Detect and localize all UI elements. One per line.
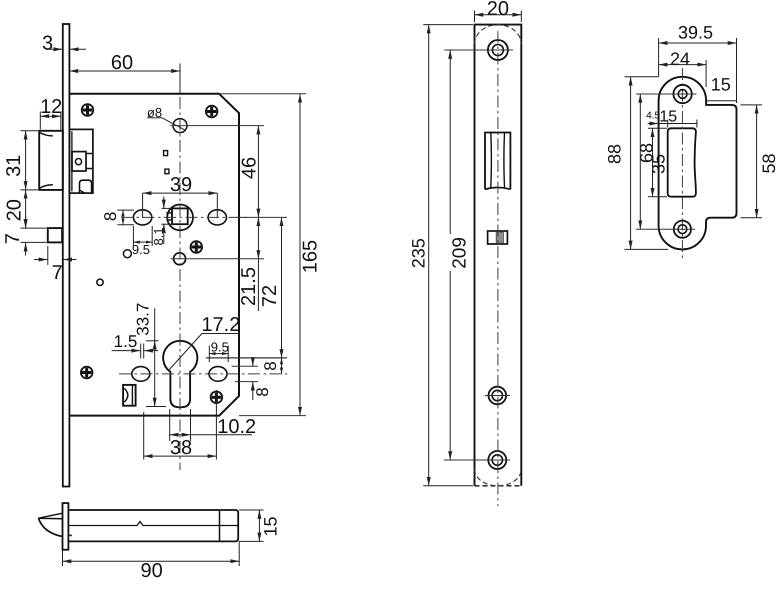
svg-text:24: 24 [670, 49, 690, 69]
case inner strip line [71, 131, 73, 191]
dim 1.5 offset [112, 332, 158, 359]
crosshead screw middle [191, 241, 203, 253]
deadbolt slot [488, 231, 508, 244]
svg-text:7: 7 [52, 262, 63, 284]
small rivet circle b [97, 279, 103, 285]
svg-text:58: 58 [759, 153, 778, 173]
dim 39.5 strike width [659, 23, 737, 104]
dim 8.1 spindle square [151, 197, 171, 246]
dim 33.7 cylinder profile height [134, 303, 166, 407]
spindle square notch [167, 213, 172, 220]
dim 7 deadbolt height [2, 215, 47, 256]
svg-text:235: 235 [409, 238, 429, 268]
dim 31 latch height [3, 131, 38, 190]
dim 8 cylinder-row slot height [253, 358, 272, 401]
latch flange cross-section [63, 503, 69, 550]
dim 209 screw centers [449, 50, 470, 460]
spindle follower circle [167, 205, 193, 231]
vertical centerline main [179, 97, 181, 470]
dim 17.2 cylinder circle [169, 314, 241, 371]
spring bracket [123, 385, 136, 406]
svg-text:15: 15 [261, 516, 281, 536]
svg-text:209: 209 [449, 237, 470, 269]
latch body [68, 510, 238, 541]
screw hole middle [485, 387, 510, 405]
dim 12 [40, 96, 62, 130]
svg-text:20: 20 [4, 199, 26, 221]
dim 35 opening height [648, 128, 668, 196]
svg-text:8: 8 [101, 212, 120, 221]
spindle square 8.1 [172, 208, 188, 224]
lower guide tab [80, 180, 92, 193]
dim 58 lip height [741, 105, 778, 218]
latch mid line with notch [68, 522, 238, 526]
lock body outline with chamfered right corners [69, 94, 239, 416]
dim 15 lip [706, 75, 736, 101]
strike latch opening [668, 128, 696, 196]
tiny square b [165, 169, 169, 174]
hole D8 top [173, 119, 187, 133]
dim 60 backset [69, 52, 180, 94]
dim 9.5 cylinder-row slot width [209, 340, 229, 363]
svg-text:46: 46 [239, 157, 261, 179]
latch end cap line [219, 510, 221, 541]
svg-text:15: 15 [711, 75, 731, 95]
dim 21.5 [238, 217, 260, 311]
extension lines right side [187, 125, 264, 127]
faceplate side bar [63, 24, 70, 487]
crosshead screw top-left [82, 104, 94, 116]
svg-text:9.5: 9.5 [132, 242, 150, 257]
screw hole top [444, 40, 513, 60]
svg-text:15: 15 [659, 109, 677, 126]
svg-text:3: 3 [42, 33, 53, 55]
svg-text:21.5: 21.5 [238, 267, 260, 306]
latch head wedge [38, 513, 62, 519]
crosshead screw lower-right [211, 392, 223, 404]
dim 7 deadbolt throw [34, 246, 77, 284]
svg-text:33.7: 33.7 [134, 303, 153, 336]
crosshead screw top-right [206, 106, 218, 118]
faceplate bottom edge dashed [475, 485, 522, 487]
svg-text:35: 35 [648, 154, 668, 174]
dim 20 faceplate width [475, 0, 522, 22]
slot hole cylinder-row left [132, 367, 150, 382]
dim 38 cylinder row holes [144, 390, 217, 460]
screw hole bottom [444, 451, 510, 469]
dim 72 [259, 217, 282, 358]
strike plate outline [659, 77, 737, 250]
faceplate bottom rounded end dashed arc [475, 469, 522, 486]
dim 9.5 spindle-row slot width [132, 226, 152, 257]
tiny square a [164, 151, 168, 156]
case structure box behind faceplate [69, 129, 93, 193]
dim 20 [4, 190, 47, 228]
latch cutout spool [485, 133, 510, 190]
svg-text:31: 31 [3, 155, 25, 177]
dim 8 cylinder center to slot center [261, 358, 282, 374]
strike screw hole bottom [636, 221, 695, 238]
svg-text:17.2: 17.2 [201, 314, 240, 336]
slot hole spindle-row right [208, 210, 226, 225]
dim 8 spindle-row slot height [101, 210, 134, 225]
svg-text:8: 8 [261, 361, 280, 370]
svg-text:90: 90 [140, 560, 162, 582]
horizontal centerline spindle row [121, 216, 247, 218]
deadbolt square [48, 228, 62, 242]
dim 68 screw centers [636, 94, 656, 229]
svg-text:12: 12 [40, 96, 62, 118]
dim 10.2 cylinder stem width [170, 409, 256, 441]
small arc behind flange [68, 535, 71, 536]
dim 15 latch height [239, 510, 281, 541]
latch bolt front view [39, 131, 63, 190]
crosshead screw lower-left [81, 367, 93, 379]
strike centerline [681, 68, 683, 258]
svg-text:39.5: 39.5 [678, 23, 713, 43]
dim 46 [239, 126, 261, 218]
horizontal centerline cylinder row [119, 373, 287, 375]
small rivet circle a [123, 250, 131, 258]
centerline middle view [497, 31, 499, 506]
svg-text:88: 88 [604, 144, 624, 164]
euro cylinder profile hole [163, 341, 197, 407]
slot hole spindle-row left [133, 210, 151, 225]
slot hole cylinder-row right [209, 367, 227, 382]
svg-text:4.5: 4.5 [646, 111, 660, 122]
dim 90 latch length [63, 541, 240, 582]
dim 165 overall height [300, 94, 322, 416]
follower notch [86, 154, 93, 169]
strike screw hole top [636, 85, 697, 103]
faceplate top rounded end dashed arc [475, 25, 522, 45]
svg-text:20: 20 [487, 0, 509, 20]
faceplate outline [475, 25, 522, 486]
latch head bevel curve [38, 518, 62, 536]
dim 88 strike height [604, 77, 668, 250]
svg-text:8: 8 [253, 387, 272, 396]
svg-text:72: 72 [259, 285, 281, 307]
dim 235 faceplate length [409, 25, 474, 486]
lower center hole [174, 253, 186, 265]
svg-text:9.5: 9.5 [211, 340, 229, 355]
svg-text:165: 165 [300, 240, 322, 273]
follower box with rivet circle [72, 152, 86, 171]
dim 39 spindle row holes [143, 174, 218, 218]
dim 3 faceplate thickness [42, 33, 86, 55]
dim 24 [659, 49, 707, 87]
label D8 leader [147, 105, 186, 130]
dim 4.5 and dim 15 opening [646, 109, 697, 128]
